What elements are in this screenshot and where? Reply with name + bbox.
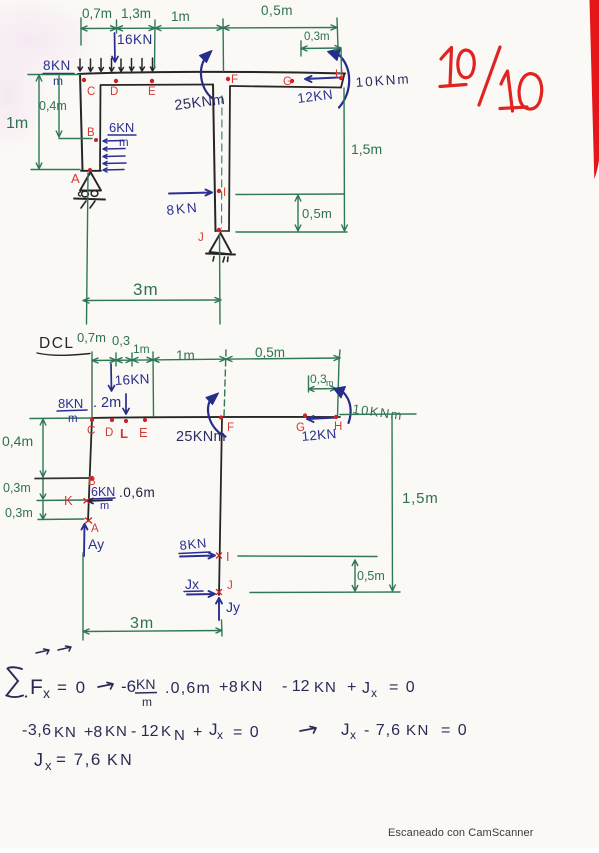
node L dot fig2: [124, 419, 128, 423]
0,5m bottom horizontal at J: [250, 591, 400, 594]
red node dots figure 1: [82, 76, 343, 232]
svg-text:m: m: [53, 74, 63, 88]
svg-text:N: N: [174, 727, 185, 744]
svg-text:-6: -6: [121, 677, 136, 696]
red x-mark at K: [84, 499, 89, 504]
svg-text:F: F: [30, 676, 43, 699]
node F dot: [226, 77, 230, 81]
reaction Jx arrow into J: [187, 591, 215, 597]
svg-text:1,3m: 1,3m: [121, 6, 151, 21]
svg-text:x: x: [45, 758, 52, 773]
svg-text:- 7,6: - 7,6: [364, 722, 401, 739]
svg-text:0,3m: 0,3m: [3, 481, 31, 495]
pin support at A : hatching: [81, 201, 95, 208]
0,3m vertical K-A: [40, 501, 46, 519]
node C dot: [82, 78, 86, 82]
svg-text:KN: KN: [314, 679, 337, 696]
svg-text:1,5m: 1,5m: [402, 490, 439, 507]
vector arrows above Fx: [36, 646, 71, 654]
svg-text:m: m: [326, 378, 334, 388]
3m right extension from J: [221, 620, 224, 636]
load tick 5: [119, 59, 124, 72]
svg-text:8KN: 8KN: [43, 58, 71, 73]
force 16KN arrow at D fig2: [109, 364, 115, 391]
svg-text:= 0: = 0: [57, 678, 87, 697]
0,5m dimension right of J: [295, 195, 301, 231]
svg-text:Escaneado con CamScanner: Escaneado con CamScanner: [388, 827, 534, 839]
beam left green extension: [30, 417, 92, 420]
svg-text:A: A: [91, 523, 99, 535]
resultant arrow at L fig2: [123, 394, 129, 414]
tick above L: [131, 353, 133, 366]
svg-text:K: K: [161, 723, 171, 740]
pink scan smudge top-left: [0, 0, 103, 85]
node D dot: [114, 79, 118, 83]
red object at right page edge: [590, 0, 599, 179]
reaction Ay arrow up at A: [82, 524, 88, 556]
force 8KN arrow at I (blue): [169, 190, 212, 196]
svg-text:H: H: [335, 69, 343, 81]
svg-text:KN: KN: [406, 722, 430, 739]
svg-text:J: J: [34, 750, 43, 770]
beam C-H top chord: [78, 72, 345, 74]
svg-text:x: x: [43, 685, 50, 701]
red x-mark at A: [86, 518, 92, 523]
second 1 crossbar: [500, 107, 527, 109]
0,5m vertical: [352, 560, 358, 591]
svg-text:x: x: [371, 686, 377, 700]
svg-text:1m: 1m: [176, 348, 195, 363]
node D dot fig2: [110, 418, 114, 422]
extension line C down from dim to beam: [91, 368, 93, 417]
green dimensions figure 1: [28, 18, 347, 324]
svg-text:. 2m: . 2m: [93, 395, 121, 411]
svg-text:1,5m: 1,5m: [351, 141, 382, 157]
node H dot fig2: [334, 415, 338, 419]
distributed load 8KN/m ticks on beam C-E: [78, 58, 155, 72]
node E dot: [150, 79, 154, 83]
svg-text:K: K: [64, 493, 73, 508]
load arrow 2: [103, 147, 125, 151]
dim arrowheads on top line: [81, 26, 87, 31]
implies arrow 1: [98, 683, 113, 690]
svg-text:0,3m: 0,3m: [304, 31, 330, 43]
svg-text:x: x: [350, 728, 356, 742]
svg-text:H: H: [334, 421, 342, 433]
load tick 6: [130, 59, 135, 72]
load tick 7: [140, 59, 145, 72]
beam bottom edge C-F: [101, 84, 213, 87]
reaction Jy arrow up at J: [216, 598, 222, 620]
left dimension labels fig2: [2, 433, 33, 520]
load tick 8: [151, 58, 156, 71]
svg-text:C: C: [87, 86, 95, 98]
title underline: [37, 353, 90, 355]
svg-text:.0,6m: .0,6m: [165, 680, 211, 697]
green dimensions figure 2 top: [30, 350, 340, 419]
0,5m top horizontal at I: [238, 555, 377, 558]
svg-text:Jx: Jx: [185, 576, 199, 592]
svg-text:3m: 3m: [133, 280, 159, 299]
green dimension labels figure 1: [6, 3, 382, 299]
svg-text:= 7,6: = 7,6: [56, 750, 102, 769]
svg-text:0,3: 0,3: [310, 372, 327, 386]
svg-text:KN: KN: [136, 676, 155, 692]
column F-J bottom cap at J: [216, 230, 230, 232]
1,5m dimension H down: [342, 88, 348, 231]
implies arrow 2: [300, 727, 316, 734]
svg-text:KN: KN: [54, 724, 77, 741]
top dimension line: [81, 28, 337, 29]
red x-mark at J: [217, 590, 222, 595]
svg-text:0,4m: 0,4m: [2, 433, 33, 449]
svg-text:KN: KN: [105, 723, 128, 740]
label 8KN/m (blue) fig2: [58, 396, 83, 425]
1,5m vertical: [390, 415, 396, 592]
beam right end cap at H: [341, 74, 345, 88]
3m dimension bottom: [83, 298, 221, 304]
beam bottom edge F-H: [231, 86, 341, 88]
load tick 3: [99, 59, 104, 72]
svg-text:E: E: [139, 425, 148, 440]
red node dots fig2: [90, 413, 338, 480]
svg-text:C: C: [87, 425, 95, 437]
svg-text:1m: 1m: [171, 9, 190, 24]
node G dot: [290, 79, 294, 83]
extension tick above D: [116, 20, 118, 33]
svg-text:F: F: [227, 422, 234, 434]
force 6KN/m resultant at K : label 6KN/m (blue): [91, 485, 115, 512]
load arrow 4: [103, 162, 126, 166]
svg-text:+8: +8: [219, 679, 238, 696]
red x-mark at I: [217, 553, 222, 558]
node I dot: [217, 189, 221, 193]
3m dimension line: [83, 628, 222, 634]
load arrow 3: [103, 155, 125, 159]
svg-text:8KN: 8KN: [58, 396, 83, 411]
svg-text:= 0: = 0: [389, 679, 416, 696]
extension above E down to beam: [152, 352, 155, 416]
svg-text:0,3: 0,3: [112, 333, 130, 348]
arrowheads top dim: [92, 358, 98, 363]
svg-text:G: G: [283, 76, 292, 88]
svg-text:1m: 1m: [6, 115, 28, 132]
column F-J dashed centerline: [221, 96, 224, 228]
svg-text:0,7m: 0,7m: [82, 6, 112, 21]
top dimension line: [92, 358, 340, 361]
node B dot: [94, 138, 98, 142]
svg-text:I: I: [223, 187, 226, 199]
load tick 2: [89, 59, 94, 72]
right/bottom dimensions fig2: [83, 414, 416, 640]
moment 10KNm arc arrow at H fig2: [344, 393, 351, 424]
force 16KN arrow at D: [112, 33, 118, 62]
column F-J left edge: [213, 85, 216, 232]
extension tick above C: [80, 18, 82, 45]
svg-text:0,5m: 0,5m: [261, 3, 293, 18]
tick above C: [91, 352, 93, 368]
1m dimension left: [36, 75, 42, 169]
0,3m dimension G-H: [309, 386, 337, 392]
column C-A bottom cap at A: [81, 170, 101, 172]
horizontal line at B (dark): [35, 477, 90, 480]
svg-text:A: A: [71, 171, 80, 186]
svg-text:-3,6: -3,6: [22, 722, 52, 739]
svg-text:0,3m: 0,3m: [5, 506, 33, 520]
0,3m dimension near H: [301, 46, 341, 52]
svg-text:J: J: [362, 680, 370, 697]
node J dot: [217, 228, 221, 232]
pin support at A : triangle: [80, 172, 101, 191]
3m left extension from A: [82, 553, 84, 640]
svg-text:D: D: [110, 86, 118, 98]
node G dot fig2: [303, 413, 307, 417]
extension line above F down to beam: [222, 19, 225, 71]
svg-text:Ay: Ay: [88, 536, 104, 552]
first 1: [441, 48, 452, 86]
svg-text:+8: +8: [84, 724, 102, 741]
svg-text:B: B: [87, 127, 95, 139]
red node letters fig2: [64, 421, 342, 592]
force 8KN arrow into I: [180, 553, 215, 559]
svg-text:+: +: [347, 679, 356, 696]
node B dot fig2: [90, 476, 94, 480]
second 0: [519, 74, 542, 110]
force arrow into K: [88, 499, 112, 504]
support at J : triangle: [210, 233, 233, 255]
svg-text:J: J: [341, 720, 350, 739]
pin support at A : rollers: [82, 191, 89, 197]
extension above F down to beam: [224, 350, 226, 417]
node C dot fig2: [90, 418, 94, 422]
horizontal at A: [38, 518, 84, 521]
svg-text:I: I: [226, 550, 229, 564]
svg-text:.0,6m: .0,6m: [119, 485, 155, 500]
svg-text:0,7m: 0,7m: [77, 330, 106, 345]
support at J : hatching: [213, 257, 228, 263]
left dimensions fig2: [37, 419, 86, 520]
first 0: [458, 50, 474, 78]
svg-text:3m: 3m: [130, 615, 154, 632]
column F-J line: [219, 418, 222, 595]
svg-text:1m: 1m: [133, 342, 150, 356]
moment 25KNm arc arrow at F fig2: [208, 400, 226, 437]
red node letters figure 1: [71, 69, 343, 244]
svg-text:+: +: [193, 724, 202, 741]
slash: [479, 47, 500, 105]
svg-text:J: J: [198, 232, 204, 244]
0,4m dimension left: [56, 76, 62, 137]
svg-text:16KN: 16KN: [117, 32, 153, 47]
load tick 1: [78, 59, 83, 71]
extension line above E down to beam: [154, 20, 157, 68]
svg-text:12KN: 12KN: [301, 426, 337, 444]
svg-text:G: G: [296, 422, 305, 434]
force 12KN arrow H to G fig2 (blue): [307, 416, 337, 422]
load arrow 1: [103, 139, 124, 143]
column C-A line: [88, 418, 92, 521]
column C-A left edge: [80, 74, 83, 170]
first 1 underline: [440, 85, 466, 87]
svg-text:- 12: - 12: [131, 723, 159, 740]
0,4m vertical: [40, 419, 46, 477]
svg-text:m: m: [142, 695, 152, 709]
svg-text:DCL: DCL: [39, 335, 75, 352]
tick above D: [115, 353, 117, 366]
svg-text:m: m: [68, 413, 78, 425]
right/bottom dimension labels fig2: [130, 490, 439, 632]
pin support at A : ground line: [74, 199, 105, 200]
node F dot fig2: [219, 415, 223, 419]
green dimension labels figure 2 top: [77, 330, 334, 388]
second 1: [501, 71, 513, 111]
svg-text:L: L: [120, 426, 128, 441]
column F-J right edge: [229, 86, 230, 231]
svg-text:16KN: 16KN: [114, 371, 150, 388]
svg-text:m: m: [119, 137, 129, 149]
node E dot fig2: [143, 418, 147, 422]
svg-text:0,4m: 0,4m: [39, 99, 67, 113]
extension line above H: [337, 18, 338, 48]
svg-text:F: F: [231, 74, 238, 86]
node H dot: [339, 76, 343, 80]
svg-text:= 0: = 0: [233, 724, 260, 741]
beam line C-H: [92, 417, 340, 418]
extension above H: [339, 350, 340, 361]
svg-text:0,5m: 0,5m: [255, 345, 285, 360]
force 12KN arrow H to G (blue): [305, 76, 338, 82]
svg-text:6KN: 6KN: [109, 120, 134, 135]
svg-text:8KN: 8KN: [179, 535, 208, 553]
node A dot: [88, 168, 92, 172]
label 8KN/m (blue): [43, 58, 71, 88]
svg-text:KN: KN: [240, 678, 264, 695]
moment 10KNm arc arrow at H: [338, 54, 349, 108]
svg-text:Jy: Jy: [226, 599, 240, 615]
svg-text:- 12: - 12: [282, 678, 310, 695]
support at J : ground line: [206, 254, 235, 255]
moment 25KNm arc arrow at F: [201, 58, 213, 100]
svg-text:x: x: [217, 728, 223, 742]
distributed load 6KN/m arrows on column at B: [103, 139, 126, 172]
10KNm to 1,5m connector: [340, 413, 416, 416]
horizontal at K: [37, 499, 86, 502]
load tick 4: [110, 59, 115, 72]
equation line 1 : sum sign (hand drawn): [7, 667, 24, 697]
svg-text:J: J: [227, 580, 233, 592]
svg-text:0,5m: 0,5m: [302, 206, 332, 221]
load arrow 5: [103, 168, 124, 172]
svg-text:0,5m: 0,5m: [357, 569, 385, 583]
0,3m vertical B-K: [40, 479, 46, 499]
distributed load 6KN/m label (blue): [109, 120, 134, 149]
svg-text:KN: KN: [107, 752, 134, 769]
svg-text:D: D: [105, 427, 113, 439]
svg-text:m: m: [100, 500, 109, 512]
svg-text:E: E: [148, 86, 156, 98]
column C-A right edge: [99, 85, 102, 170]
svg-text:= 0: = 0: [441, 722, 468, 739]
svg-text:B: B: [88, 476, 96, 488]
